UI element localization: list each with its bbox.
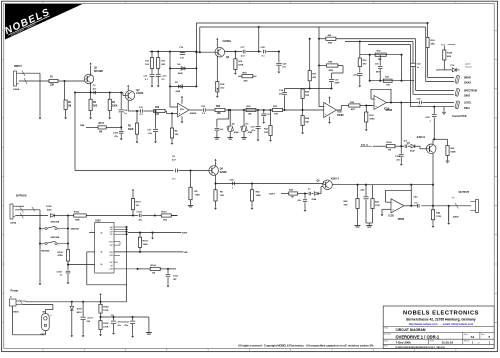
svg-text:BYPASS: BYPASS xyxy=(16,194,27,198)
svg-text:R20: R20 xyxy=(216,106,221,108)
svg-text:560P: 560P xyxy=(335,83,340,85)
svg-text:+C42: +C42 xyxy=(360,189,366,192)
svg-text:C102: C102 xyxy=(137,212,143,214)
svg-text:+C101: +C101 xyxy=(87,318,94,320)
svg-text:J0004: J0004 xyxy=(13,88,20,91)
svg-text:-: - xyxy=(392,201,393,204)
svg-text:C2062G: C2062G xyxy=(223,41,232,43)
svg-text:10K: 10K xyxy=(386,85,390,87)
svg-text:K30A-S: K30A-S xyxy=(417,136,426,139)
svg-text:R102: R102 xyxy=(74,211,80,213)
svg-text:SW100A: SW100A xyxy=(51,220,60,223)
svg-text:R109: R109 xyxy=(387,142,393,144)
svg-text:VDD: VDD xyxy=(441,44,446,46)
svg-text:170K: 170K xyxy=(375,205,380,207)
svg-text:100K: 100K xyxy=(256,195,262,197)
svg-text:170K: 170K xyxy=(103,310,109,312)
svg-text:C102: C102 xyxy=(173,276,179,278)
svg-text:CIRCUIT DIAGRAM: CIRCUIT DIAGRAM xyxy=(396,328,426,332)
svg-text:4558S: 4558S xyxy=(190,112,197,115)
svg-text:Power: Power xyxy=(11,289,19,293)
svg-text:7-Dec-2006: 7-Dec-2006 xyxy=(396,341,412,345)
svg-text:300K: 300K xyxy=(328,70,333,72)
svg-text:33K: 33K xyxy=(50,84,55,86)
svg-text:10K: 10K xyxy=(248,114,252,116)
svg-text:C108: C108 xyxy=(395,156,401,158)
svg-text:R105: R105 xyxy=(103,323,109,325)
svg-text:100K: 100K xyxy=(75,219,81,221)
svg-text:4558S: 4558S xyxy=(386,109,393,112)
svg-text:D100: D100 xyxy=(46,206,52,208)
svg-text:+C13: +C13 xyxy=(162,76,168,78)
svg-text:Number: Number xyxy=(384,333,392,336)
svg-text:1M: 1M xyxy=(68,106,71,108)
svg-text:47u: 47u xyxy=(139,218,143,221)
svg-text:47K: 47K xyxy=(312,76,316,79)
svg-text:22M: 22M xyxy=(109,252,113,254)
svg-text:SOFT: SOFT xyxy=(269,193,275,195)
svg-text:12M: 12M xyxy=(109,269,113,271)
svg-text:SW2206: SW2206 xyxy=(41,251,50,253)
svg-text:50KA: 50KA xyxy=(464,107,470,110)
svg-text:15:16:16: 15:16:16 xyxy=(442,341,454,345)
svg-text:R104: R104 xyxy=(151,264,157,267)
svg-text:500K: 500K xyxy=(451,152,457,154)
svg-text:3K3: 3K3 xyxy=(93,106,98,108)
svg-text:K222E: K222E xyxy=(220,172,227,174)
svg-text:+C104: +C104 xyxy=(123,321,130,324)
svg-text:1M: 1M xyxy=(152,273,155,275)
svg-text:IC2B: IC2B xyxy=(389,216,395,218)
svg-text:BC549B: BC549B xyxy=(94,70,103,73)
svg-text:U1A: U1A xyxy=(180,108,184,111)
svg-text:OVERDRIVE 1 / ODR-1: OVERDRIVE 1 / ODR-1 xyxy=(396,334,440,339)
svg-text:J7606: J7606 xyxy=(13,312,20,314)
svg-text:VGG: VGG xyxy=(109,242,114,244)
svg-text:50K: 50K xyxy=(184,252,188,254)
svg-text:SPECTRUM: SPECTRUM xyxy=(464,90,477,92)
svg-text:R101: R101 xyxy=(136,202,142,204)
svg-text:10K: 10K xyxy=(305,122,309,124)
svg-text:DRIVE: DRIVE xyxy=(464,77,471,79)
svg-text:4558S: 4558S xyxy=(337,114,344,117)
svg-text:K30_A: K30_A xyxy=(361,143,368,146)
svg-text:-: - xyxy=(375,98,376,101)
svg-text:U100: U100 xyxy=(95,221,101,223)
svg-text:4558S: 4558S xyxy=(398,218,405,221)
svg-text:170K: 170K xyxy=(103,327,109,329)
svg-text:J0006: J0006 xyxy=(453,217,460,219)
svg-text:Sheet: Sheet xyxy=(464,339,470,342)
svg-text:50KB: 50KB xyxy=(464,96,470,98)
svg-text:R103: R103 xyxy=(143,241,149,243)
svg-text:330K: 330K xyxy=(128,129,134,131)
svg-text:22n: 22n xyxy=(279,94,283,96)
svg-text:SOFT: SOFT xyxy=(182,233,188,235)
svg-text:22n: 22n xyxy=(148,133,152,135)
svg-text:12K: 12K xyxy=(217,113,222,115)
svg-text:SW100B: SW100B xyxy=(51,237,60,239)
svg-text:1M: 1M xyxy=(136,205,139,207)
svg-text:170K: 170K xyxy=(436,216,442,218)
svg-text:R10: R10 xyxy=(155,107,160,109)
svg-text:1M: 1M xyxy=(388,150,391,152)
svg-text:All rights reserved - Copyri: All rights reserved - Copyright NOBELS E… xyxy=(238,344,374,348)
svg-text:SW2206: SW2206 xyxy=(71,229,80,231)
svg-text:OUTPUT: OUTPUT xyxy=(459,190,470,194)
svg-text:INPUT: INPUT xyxy=(14,64,22,68)
svg-text:C106: C106 xyxy=(113,133,119,135)
svg-text:K222E: K222E xyxy=(136,93,143,95)
svg-text:10K: 10K xyxy=(220,195,224,197)
svg-text:27n: 27n xyxy=(282,67,286,69)
svg-text:1M: 1M xyxy=(99,132,102,134)
svg-text:47n: 47n xyxy=(252,129,256,132)
svg-text:Control PCB: Control PCB xyxy=(452,115,466,118)
svg-text:S2B: S2B xyxy=(80,125,85,127)
svg-text:+C41: +C41 xyxy=(425,116,431,119)
svg-text:R108: R108 xyxy=(447,53,453,55)
svg-text:Bernerstrasse 42, 22765 Hambur: Bernerstrasse 42, 22765 Hamburg, Germany xyxy=(406,317,475,321)
svg-text:R104: R104 xyxy=(103,306,109,309)
svg-text:170K: 170K xyxy=(195,194,201,196)
svg-text:10P: 10P xyxy=(173,279,177,281)
svg-text:LEVEL: LEVEL xyxy=(464,102,472,104)
svg-text:C100: C100 xyxy=(57,271,63,273)
svg-text:10K: 10K xyxy=(274,114,278,116)
svg-text:150K: 150K xyxy=(238,64,244,66)
svg-text:100K: 100K xyxy=(143,244,149,246)
svg-text:330K: 330K xyxy=(112,106,118,108)
svg-text:+C33: +C33 xyxy=(353,74,359,76)
svg-text:-: - xyxy=(325,105,326,108)
svg-text:http://www.nobels.com - em: http://www.nobels.com - email: info@nobe… xyxy=(409,322,474,326)
svg-text:R-$PROVED\EGB\ORIGIN\ODR-1\OD-: R-$PROVED\EGB\ORIGIN\ODR-1\OD-1_SM.SCH xyxy=(396,347,446,349)
svg-text:K30A-Y: K30A-Y xyxy=(331,178,340,181)
svg-text:250KA: 250KA xyxy=(464,82,471,85)
svg-text:NOBELS ELECTRONICS: NOBELS ELECTRONICS xyxy=(403,311,479,317)
svg-text:J0004: J0004 xyxy=(10,222,17,225)
svg-text:12K: 12K xyxy=(264,132,268,134)
svg-text:D101: D101 xyxy=(77,308,83,310)
svg-text:R107: R107 xyxy=(99,123,105,125)
svg-text:4001: 4001 xyxy=(77,311,83,314)
svg-text:470K: 470K xyxy=(370,118,376,121)
svg-text:U1B: U1B xyxy=(337,112,342,114)
svg-text:turn-on.: turn-on. xyxy=(465,65,472,68)
svg-text:R100: R100 xyxy=(58,252,64,254)
svg-text:470K: 470K xyxy=(58,254,64,257)
svg-text:A4: A4 xyxy=(471,335,475,339)
svg-text:R110: R110 xyxy=(162,211,168,213)
svg-text:green: green xyxy=(465,63,470,66)
svg-text:7: 7 xyxy=(91,231,92,233)
svg-text:1M: 1M xyxy=(291,197,294,199)
